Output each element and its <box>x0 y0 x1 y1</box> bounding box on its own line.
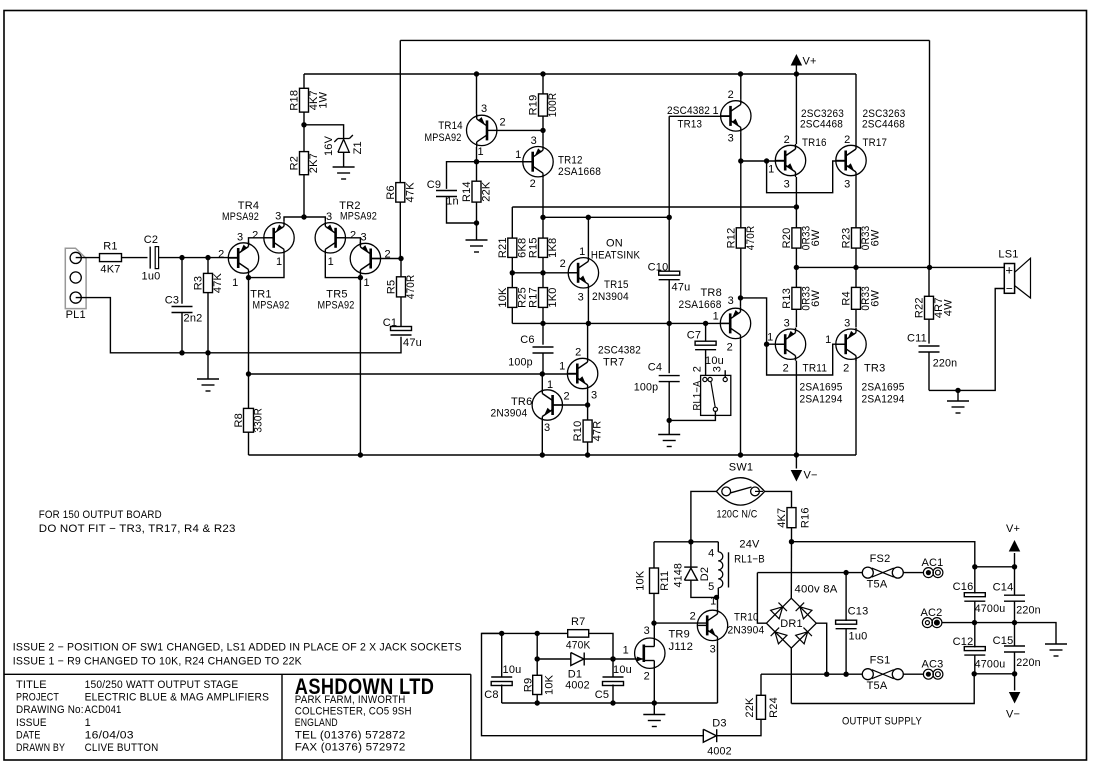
wire TR16 collector <box>795 74 797 144</box>
zener Z1 <box>338 138 350 140</box>
svg-text:10K: 10K <box>497 287 509 308</box>
svg-text:T5A: T5A <box>867 579 888 591</box>
svg-text:3: 3 <box>275 211 281 223</box>
svg-text:TR7: TR7 <box>603 357 624 369</box>
wire R13 to TR11 <box>795 309 797 327</box>
wire TR12 base <box>477 161 533 163</box>
svg-text:2n2: 2n2 <box>184 313 203 325</box>
svg-text:2K7: 2K7 <box>308 153 320 173</box>
wire rail to TR16 emitter <box>512 206 796 208</box>
terminal AC3 <box>923 669 933 679</box>
wire relay rail <box>654 541 718 543</box>
svg-text:R23: R23 <box>841 228 853 249</box>
wire AC2 to mid rail <box>942 623 1056 644</box>
junction TR1/TR4 emitters <box>246 275 251 280</box>
svg-text:2SA1695: 2SA1695 <box>862 382 905 394</box>
svg-text:2: 2 <box>690 611 696 623</box>
svg-text:TR17: TR17 <box>863 137 888 149</box>
junction V+ rail / R19 <box>540 71 545 76</box>
capacitor C13 <box>836 620 857 624</box>
wire C5 bottom <box>612 685 614 704</box>
svg-text:TR3: TR3 <box>864 363 885 375</box>
svg-text:C11: C11 <box>907 333 927 345</box>
svg-text:3: 3 <box>531 135 537 147</box>
junction R12/TR8/drive <box>738 295 743 300</box>
junction R21/R25 <box>510 270 515 275</box>
wire TR9 gate <box>613 658 635 660</box>
svg-text:1K0: 1K0 <box>547 287 559 307</box>
wire bottom bus <box>502 702 718 704</box>
wire TR17 emitter <box>855 177 857 228</box>
wire C13 bottom <box>845 629 847 674</box>
wire C14 bottom <box>1014 601 1016 622</box>
svg-text:MPSA92: MPSA92 <box>340 211 377 223</box>
wire R3 top <box>207 258 209 274</box>
wire R7 right <box>589 633 613 659</box>
wire SW1 left <box>691 491 717 541</box>
svg-text:2: 2 <box>692 366 704 372</box>
junction bus/R9 <box>535 700 540 705</box>
svg-text:2: 2 <box>784 134 790 146</box>
svg-text:4K7: 4K7 <box>100 264 120 276</box>
svg-text:330R: 330R <box>253 408 265 433</box>
svg-text:V−: V− <box>804 470 818 482</box>
svg-text:D2: D2 <box>699 567 711 581</box>
junction rail/R17 <box>540 321 545 326</box>
wire C7 to relay <box>705 350 707 375</box>
wire R22 top <box>928 267 930 296</box>
junction speaker return/ground <box>955 388 960 393</box>
svg-text:2N3904: 2N3904 <box>592 291 629 303</box>
wire C3 top <box>181 258 183 304</box>
svg-text:2: 2 <box>644 671 650 683</box>
wire R15 bottom <box>542 257 544 272</box>
wire R9/D1 column <box>536 633 538 675</box>
svg-text:TR14: TR14 <box>438 120 463 132</box>
resistor R7 <box>568 630 589 638</box>
wire R5 top <box>400 259 402 277</box>
svg-text:3: 3 <box>578 292 584 304</box>
ground TR9 <box>643 714 665 716</box>
wire bridge left <box>757 573 766 624</box>
resistor R3 <box>204 273 213 292</box>
capacitor C14 <box>1004 594 1025 596</box>
wire C9 bottom <box>447 197 477 223</box>
svg-text:1: 1 <box>579 246 585 258</box>
wire C15 bottom <box>1014 652 1016 674</box>
wire TR15 emitter down <box>587 289 589 323</box>
resistor R16 <box>787 508 796 528</box>
wire FS2 to AC1 <box>903 572 923 574</box>
junction V- rail/TR5 column <box>358 452 363 457</box>
svg-text:2: 2 <box>843 363 849 375</box>
junction TR13 emitter/R12 <box>738 158 743 163</box>
wire R18 bottom to R2 <box>303 112 305 152</box>
svg-text:R5: R5 <box>386 280 398 294</box>
svg-text:R14: R14 <box>461 181 473 202</box>
svg-text:DR1: DR1 <box>780 618 803 630</box>
wire TR13e to TR16 base <box>741 160 785 162</box>
wire D2 bottom <box>691 580 717 597</box>
svg-text:R8: R8 <box>233 413 245 427</box>
transistor TR8 2SA1668 <box>720 308 750 338</box>
svg-text:3: 3 <box>644 625 650 637</box>
svg-text:Z1: Z1 <box>352 141 364 154</box>
svg-text:R13: R13 <box>781 288 793 309</box>
svg-text:COLCHESTER, CO5 9SH: COLCHESTER, CO5 9SH <box>295 706 412 718</box>
wire R23 bottom <box>855 248 857 267</box>
svg-text:16/04/03: 16/04/03 <box>85 730 134 742</box>
junction mid/C12-C16 <box>972 620 977 625</box>
capacitor C9 <box>436 190 457 192</box>
svg-text:R18: R18 <box>289 90 301 111</box>
wire R2 to TR4/TR2 node <box>303 175 305 217</box>
junction C4/RL1-A/ground <box>667 418 672 423</box>
svg-text:R22: R22 <box>914 297 926 318</box>
svg-text:2N3904: 2N3904 <box>491 408 528 420</box>
transistor TR2 MPSA92 <box>315 223 345 253</box>
wire V+ rail top <box>304 73 856 75</box>
wire C8 bottom <box>501 685 503 704</box>
svg-text:R16: R16 <box>800 507 812 528</box>
svg-text:10K: 10K <box>543 674 555 695</box>
svg-text:TR13: TR13 <box>678 119 703 131</box>
svg-text:PL1: PL1 <box>66 309 86 321</box>
svg-text:470K: 470K <box>566 639 591 651</box>
svg-text:C3: C3 <box>165 295 179 307</box>
svg-text:C10: C10 <box>648 262 669 274</box>
junction TR15 collector <box>586 215 591 220</box>
wire TR9 drain <box>653 623 655 639</box>
wire C16 top <box>974 567 976 594</box>
svg-text:R20: R20 <box>781 228 793 249</box>
svg-text:2: 2 <box>252 230 258 242</box>
svg-text:2: 2 <box>530 178 536 190</box>
junction V+ rail / TR13 collector <box>738 71 743 76</box>
svg-text:+: + <box>1005 262 1013 277</box>
junction R7/C8 top <box>499 631 504 636</box>
svg-text:ACD041: ACD041 <box>85 704 122 716</box>
terminal AC2 <box>922 618 932 628</box>
svg-text:C1: C1 <box>383 317 397 329</box>
svg-text:FS1: FS1 <box>870 655 891 667</box>
wire R1 to C2 <box>121 257 147 259</box>
svg-text:MPSA92: MPSA92 <box>253 300 290 312</box>
junction rail/R22-bootstrap <box>927 265 932 270</box>
junction FS1 line/C13 <box>843 672 848 677</box>
svg-text:1: 1 <box>276 256 282 268</box>
svg-text:3: 3 <box>844 318 850 330</box>
transistor TR15 2N3904 <box>568 258 598 288</box>
svg-text:R12: R12 <box>725 228 737 249</box>
svg-text:C16: C16 <box>953 581 974 593</box>
resistor R21 <box>508 238 517 257</box>
junction return/R3 <box>205 350 210 355</box>
svg-text:2: 2 <box>728 89 734 101</box>
svg-text:6W: 6W <box>810 289 822 306</box>
junction FS1 line/bridge <box>824 672 829 677</box>
capacitor C11 <box>919 345 940 347</box>
svg-text:TR6: TR6 <box>511 396 532 408</box>
wire R4 top <box>855 267 857 287</box>
svg-text:FS2: FS2 <box>870 553 891 565</box>
wire bias rail to TR8 base <box>512 322 730 324</box>
wire FS1 line <box>761 673 865 675</box>
svg-text:1: 1 <box>713 311 719 323</box>
svg-text:47K: 47K <box>404 182 416 203</box>
svg-text:1: 1 <box>825 334 831 346</box>
wire C16 bottom <box>974 601 976 622</box>
ground input <box>197 378 219 380</box>
wire FS2 line <box>757 572 862 574</box>
wire C3 bottom <box>181 312 183 352</box>
svg-text:470R: 470R <box>745 226 757 251</box>
wire bootstrap left leg to R6 <box>399 40 401 182</box>
svg-text:TR8: TR8 <box>701 287 722 299</box>
svg-text:100R: 100R <box>547 93 559 118</box>
wire TR2 base to TR5 collector <box>336 238 361 244</box>
wire TR6 collector <box>541 374 543 389</box>
svg-text:2SA1294: 2SA1294 <box>800 394 843 406</box>
svg-text:10u: 10u <box>503 664 522 676</box>
wire C12 bottom <box>974 655 976 674</box>
wire left loop <box>482 633 704 735</box>
svg-text:RL1−B: RL1−B <box>734 554 765 566</box>
diode D3 4002 <box>703 729 716 742</box>
svg-text:V+: V+ <box>1006 523 1020 535</box>
thermal switch SW1 <box>716 478 764 505</box>
wire TR2 collector up <box>304 217 325 221</box>
wire R19 bottom <box>542 116 544 130</box>
wire PL1 pin1 to R1 <box>76 257 100 259</box>
svg-text:6W: 6W <box>870 229 882 246</box>
svg-text:C5: C5 <box>595 689 609 701</box>
svg-text:CLIVE BUTTON: CLIVE BUTTON <box>85 742 159 754</box>
transistor TR14 MPSA92 <box>467 115 497 145</box>
wire TR13 collector <box>740 74 742 99</box>
svg-text:SW1: SW1 <box>729 462 753 474</box>
resistor R2 <box>300 152 309 175</box>
svg-text:4K7: 4K7 <box>776 508 788 528</box>
junction rail/C10-C4 <box>667 321 672 326</box>
wire D2 top <box>690 542 692 567</box>
svg-text:100p: 100p <box>634 382 659 394</box>
resistor R17 <box>539 288 548 308</box>
wire TR10 emitter <box>717 642 719 703</box>
svg-text:R9: R9 <box>523 678 535 692</box>
resistor R4 <box>852 287 861 309</box>
ground below Z1 <box>333 166 355 168</box>
junction rail/C7 <box>703 321 708 326</box>
svg-text:22K: 22K <box>744 697 756 718</box>
resistor R19 <box>539 94 548 116</box>
wire TR6 base <box>553 404 588 406</box>
wire jog to TR17 base <box>767 161 846 193</box>
svg-text:3: 3 <box>591 390 597 402</box>
svg-text:3: 3 <box>481 103 487 115</box>
svg-text:ISSUE 1 − R9 CHANGED TO 10K, R: ISSUE 1 − R9 CHANGED TO 10K, R24 CHANGED… <box>13 656 302 668</box>
wire C13 top <box>845 573 847 621</box>
relay coil RL1-B <box>717 542 719 552</box>
wire TR15 collector link <box>543 216 669 218</box>
wire TR11 emitter <box>795 361 797 455</box>
wire jog to TR3 base <box>767 344 846 375</box>
svg-text:TR9: TR9 <box>669 629 690 641</box>
junction R18/R2/Z1 <box>301 122 306 127</box>
svg-text:4: 4 <box>708 548 714 560</box>
wire TR9 gnd stem <box>653 703 655 715</box>
svg-text:R11: R11 <box>659 571 671 591</box>
wire TR13 emitter <box>740 132 742 161</box>
svg-text:1u0: 1u0 <box>849 631 868 643</box>
wire TR3 emitter to rail <box>855 360 857 456</box>
svg-text:R10: R10 <box>572 421 584 442</box>
wire TR1 emitter <box>248 275 250 278</box>
wire R8 to V- rail <box>248 432 250 455</box>
junction TR9 source/ground rail <box>652 700 657 705</box>
svg-text:6K8: 6K8 <box>516 238 528 258</box>
svg-text:2SC4468: 2SC4468 <box>800 119 843 131</box>
svg-text:R7: R7 <box>571 616 585 628</box>
svg-text:MPSA92: MPSA92 <box>222 211 259 223</box>
wire R19 top <box>542 74 544 94</box>
resistor R8 <box>244 408 254 432</box>
junction V- link/C15 <box>1012 671 1017 676</box>
resistor R22 <box>925 296 934 319</box>
junction C2/R3 <box>205 255 210 260</box>
svg-text:1: 1 <box>515 149 521 161</box>
resistor R5 <box>397 277 406 297</box>
svg-text:2: 2 <box>560 258 566 270</box>
transistor TR4 MPSA92 <box>264 223 294 253</box>
wire R18 top <box>303 74 305 88</box>
fuse FS1 <box>862 669 873 680</box>
svg-text:1: 1 <box>364 277 370 289</box>
wire R22 to C11 <box>928 319 930 343</box>
capacitor C12 <box>964 647 985 651</box>
svg-text:FAX (01376) 572972: FAX (01376) 572972 <box>295 742 406 754</box>
svg-text:1: 1 <box>547 379 553 391</box>
junction base jog top <box>764 158 769 163</box>
transistor TR12 2SA1668 <box>523 147 553 177</box>
svg-text:3: 3 <box>728 133 734 145</box>
wire C15 top <box>1014 623 1016 646</box>
junction TR7e/TR6 base <box>585 402 590 407</box>
svg-text:2: 2 <box>350 230 356 242</box>
svg-text:3: 3 <box>784 179 790 191</box>
svg-text:47K: 47K <box>212 272 224 293</box>
wire V+ symbol stem <box>795 63 797 74</box>
svg-text:4002: 4002 <box>707 746 732 758</box>
wire TR1 collector to TR4 base <box>249 238 274 243</box>
svg-text:1: 1 <box>623 645 629 657</box>
wire C2 to TR1 base <box>159 257 239 259</box>
wire bridge bottom <box>790 648 792 703</box>
resistor R18 <box>300 88 309 112</box>
wire R10 bottom <box>587 442 589 455</box>
svg-text:C6: C6 <box>520 334 534 346</box>
svg-text:ISSUE: ISSUE <box>16 717 47 729</box>
wire C11 bottom <box>928 352 930 390</box>
svg-text:1n: 1n <box>446 196 459 208</box>
power symbol V- supply <box>1009 692 1021 704</box>
wire R17 top <box>542 273 544 288</box>
wire R15 top <box>542 217 544 238</box>
wire R4 to TR3 <box>855 309 857 327</box>
wire TR14 base to R19 <box>497 129 543 131</box>
wire supply bottom rail <box>791 674 974 704</box>
junction R6/R5/TR5 base <box>398 256 403 261</box>
junction V- rail/V- symbol <box>794 452 799 457</box>
wire C12 top <box>974 623 976 648</box>
svg-text:6W: 6W <box>870 289 882 306</box>
svg-text:TEL (01376) 572872: TEL (01376) 572872 <box>295 730 406 742</box>
wire C9 branch <box>447 162 477 189</box>
resistor R20 <box>792 228 801 248</box>
svg-text:4700u: 4700u <box>975 603 1006 615</box>
wire feedback to TR7 base <box>249 373 578 375</box>
svg-text:1: 1 <box>768 164 774 176</box>
svg-text:3: 3 <box>784 318 790 330</box>
svg-text:4700u: 4700u <box>975 659 1006 671</box>
wire TR8 emitter <box>740 340 742 455</box>
wire TR16 emitter <box>795 177 797 207</box>
wire D1 cathode <box>584 658 613 660</box>
junction V- link/C12 <box>972 671 977 676</box>
svg-text:LS1: LS1 <box>998 249 1018 261</box>
svg-text:C2: C2 <box>144 234 158 246</box>
svg-text:3: 3 <box>326 211 332 223</box>
svg-text:ON: ON <box>606 238 623 250</box>
ground below R14 <box>466 239 488 241</box>
resistor R23 <box>852 228 861 248</box>
svg-text:10K: 10K <box>635 570 647 591</box>
resistor R1 <box>100 254 122 262</box>
transistor TR1 MPSA92 <box>228 243 258 273</box>
wire TR7 collector <box>587 323 589 357</box>
transistor TR6 2N3904 <box>532 390 562 420</box>
speaker LS1 <box>1004 264 1014 294</box>
junction V- rail/R10 <box>585 452 590 457</box>
svg-text:R1: R1 <box>103 240 117 252</box>
junction V- rail/TR8 emitter <box>738 452 743 457</box>
svg-text:AC1: AC1 <box>922 557 944 569</box>
svg-text:DRAWING No:: DRAWING No: <box>16 704 84 716</box>
svg-text:R15: R15 <box>528 237 540 258</box>
wire C4 top <box>668 323 670 373</box>
svg-text:RL1−A: RL1−A <box>692 380 704 410</box>
svg-text:22K: 22K <box>481 181 493 202</box>
junction R19/TR12 collector <box>540 128 545 133</box>
wire R11 bottom <box>653 593 655 623</box>
svg-text:1: 1 <box>710 596 716 608</box>
wire V- symbol stem <box>795 455 797 469</box>
junction R7/R9/D1 <box>535 631 540 636</box>
wire TR10 collector <box>717 597 719 609</box>
svg-text:R21: R21 <box>497 237 509 258</box>
svg-text:1: 1 <box>767 332 773 344</box>
wire PL1 pin3 return <box>76 298 401 353</box>
svg-text:HEATSINK: HEATSINK <box>591 250 641 262</box>
junction feedback tap <box>246 371 251 376</box>
wire R3 ground stem <box>207 353 209 379</box>
resistor R12 <box>736 228 745 248</box>
svg-text:2: 2 <box>575 347 581 359</box>
capacitor C4 <box>659 375 680 377</box>
wire TR12 emitter <box>542 178 544 217</box>
wire R12 top <box>740 161 742 228</box>
transistor TR17 2SC3263 <box>836 145 866 175</box>
